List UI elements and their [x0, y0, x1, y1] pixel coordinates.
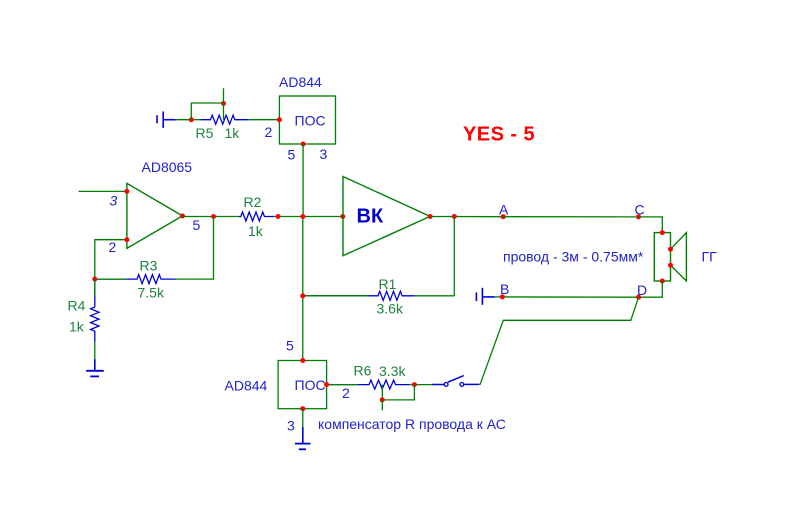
- wire D to switch diagonal: [479, 297, 639, 384]
- wire R6 left: [327, 384, 358, 386]
- label R2: [244, 194, 262, 210]
- wire feedback down: [453, 217, 455, 296]
- node R2 right: [276, 214, 281, 219]
- svg-text:7.5k: 7.5k: [138, 285, 165, 301]
- wire R1 right: [415, 295, 455, 297]
- wire R2 to VK: [274, 216, 343, 218]
- node POS1 pin2: [277, 117, 282, 122]
- svg-text:5: 5: [288, 147, 296, 163]
- input terminal (top-left): [157, 111, 176, 128]
- resistor R2: [239, 212, 274, 221]
- node A: [501, 214, 506, 219]
- pin 2 label: [109, 239, 117, 255]
- svg-text:2: 2: [265, 124, 273, 140]
- node POS2 pin2: [324, 382, 329, 387]
- node junction R2/R3: [211, 214, 216, 219]
- label B: [500, 281, 509, 297]
- svg-text:R3: R3: [140, 258, 158, 274]
- wire input pin2: [95, 240, 127, 279]
- ground (R4): [86, 359, 104, 376]
- wire R4 top: [94, 279, 96, 296]
- svg-text:B: B: [500, 281, 509, 297]
- svg-text:YES - 5: YES - 5: [463, 124, 535, 146]
- node speaker cone bottom: [668, 263, 673, 268]
- svg-text:5: 5: [286, 338, 294, 354]
- label D: [637, 282, 647, 298]
- svg-text:R6: R6: [354, 363, 372, 379]
- node VK input: [340, 214, 345, 219]
- svg-text:R5: R5: [196, 125, 214, 141]
- svg-text:R1: R1: [379, 276, 397, 292]
- op-amp U3 VK buffer: [343, 177, 430, 256]
- label AD8065: [142, 159, 193, 175]
- wire stub down: [381, 400, 383, 411]
- op-amp U2 AD8065: [127, 183, 183, 248]
- label AD844 (bottom): [225, 378, 268, 394]
- node POS1 bottom: [301, 142, 306, 147]
- wire R6 right: [409, 384, 414, 386]
- wire opamp out to R2: [183, 216, 239, 218]
- svg-text:ПОС: ПОС: [295, 377, 326, 393]
- svg-text:3: 3: [110, 193, 118, 209]
- title YES - 5: [463, 124, 535, 146]
- value R5 1k: [225, 125, 241, 141]
- svg-text:компенсатор R провода к АС: компенсатор R провода к АС: [318, 416, 506, 432]
- svg-text:ГГ: ГГ: [702, 249, 718, 265]
- svg-text:2: 2: [342, 385, 350, 401]
- pin 5 label: [193, 217, 201, 233]
- label R3: [140, 258, 158, 274]
- label AD844 (top): [279, 74, 322, 90]
- svg-text:3.3k: 3.3k: [379, 363, 406, 379]
- resistor R5: [200, 115, 249, 124]
- pin 3 label: [110, 193, 118, 209]
- value R3 7.5k: [138, 285, 165, 301]
- node R5 loop top: [221, 101, 226, 106]
- svg-text:1k: 1k: [69, 319, 85, 335]
- wire R3 to output: [175, 217, 214, 280]
- wire C to speaker: [639, 217, 663, 233]
- node pin2: [124, 237, 129, 242]
- wire B to D: [495, 296, 639, 298]
- svg-text:AD844: AD844: [225, 378, 268, 394]
- svg-text:1k: 1k: [248, 223, 264, 239]
- pin 2 label POS2: [342, 385, 350, 401]
- svg-text:3.6k: 3.6k: [377, 301, 404, 317]
- svg-text:D: D: [637, 282, 647, 298]
- value R1 3.6k: [377, 301, 404, 317]
- svg-text:ВК: ВК: [357, 206, 384, 228]
- wire main line to R1: [302, 217, 304, 296]
- pin 5 label POS2: [286, 338, 294, 354]
- ground (POS2): [295, 427, 311, 449]
- node VK output: [428, 214, 433, 219]
- wire R1 to POS2 pin5: [302, 296, 304, 361]
- node speaker bottom: [660, 279, 665, 284]
- resistor R1: [303, 291, 415, 300]
- speaker GG: [654, 233, 686, 281]
- pin 5 label POS1: [288, 147, 296, 163]
- wire input pin3: [79, 190, 127, 192]
- label C: [635, 202, 645, 218]
- wire A to C: [503, 216, 638, 218]
- label A: [499, 202, 509, 218]
- wire R1 left: [303, 295, 368, 297]
- wire POS1 to main line: [302, 144, 304, 217]
- resistor R4: [91, 279, 99, 342]
- node feedback junction: [452, 214, 457, 219]
- svg-text:A: A: [499, 202, 509, 218]
- value R2 1k: [248, 223, 264, 239]
- svg-text:R2: R2: [244, 194, 262, 210]
- label R6: [354, 363, 372, 379]
- node R5 left: [189, 117, 194, 122]
- svg-text:R4: R4: [68, 298, 86, 314]
- op-amp U4 POS box 2: [278, 361, 327, 409]
- node R3/R4 junction: [92, 277, 97, 282]
- node R1 left: [300, 293, 305, 298]
- wire R4 to ground: [94, 342, 96, 359]
- node B: [500, 294, 505, 299]
- input terminal B: [476, 288, 494, 305]
- wire R6 to switch: [414, 384, 432, 386]
- svg-text:AD8065: AD8065: [142, 159, 193, 175]
- value R6 3.3k: [379, 363, 406, 379]
- label R5: [196, 125, 214, 141]
- wire VK out: [430, 216, 503, 218]
- svg-text:5: 5: [193, 217, 201, 233]
- node D: [636, 295, 641, 300]
- svg-text:1k: 1k: [225, 125, 241, 141]
- svg-text:AD844: AD844: [279, 74, 322, 90]
- wire stub up: [223, 88, 225, 103]
- wire R6 bypass loop: [382, 385, 414, 400]
- pin 2 label POS1: [265, 124, 273, 140]
- pin 3 label POS2: [287, 418, 295, 434]
- node output 5: [180, 214, 185, 219]
- svg-text:3: 3: [287, 418, 295, 434]
- node C: [636, 214, 641, 219]
- svg-text:3: 3: [320, 146, 328, 162]
- label GG: [702, 249, 718, 265]
- node POS2 bottom: [300, 406, 305, 411]
- resistor R6: [328, 380, 410, 389]
- wire POS2 to ground: [302, 409, 304, 427]
- svg-text:2: 2: [109, 239, 117, 255]
- svg-text:C: C: [635, 202, 645, 218]
- node bus junction: [300, 214, 305, 219]
- wire loop tap to R5 center: [223, 104, 225, 120]
- op-amp U1 POS box: [279, 96, 335, 144]
- label compensator note: [318, 416, 506, 432]
- node R6 right: [412, 382, 417, 387]
- node R6 loop: [380, 397, 385, 402]
- wire speaker to D: [639, 281, 663, 297]
- pin 3 label POS1: [320, 146, 328, 162]
- label R1: [379, 276, 397, 292]
- resistor R3: [95, 275, 176, 284]
- node speaker cone top: [668, 247, 673, 252]
- label R4: [68, 298, 86, 314]
- svg-text:провод - 3м - 0.75мм*: провод - 3м - 0.75мм*: [503, 249, 644, 265]
- node speaker top: [660, 230, 665, 235]
- svg-text:ПОС: ПОС: [295, 113, 326, 129]
- switch S1: [432, 376, 479, 387]
- node POS2 top: [300, 358, 305, 363]
- wire R3 left: [95, 278, 127, 280]
- wire terminal to R5: [176, 119, 201, 121]
- node pin3: [124, 189, 129, 194]
- wire R5 bypass loop: [191, 103, 223, 120]
- label wire note: [503, 249, 644, 265]
- wire R5 to POS1 pin2: [249, 119, 280, 121]
- value R4 1k: [69, 319, 85, 335]
